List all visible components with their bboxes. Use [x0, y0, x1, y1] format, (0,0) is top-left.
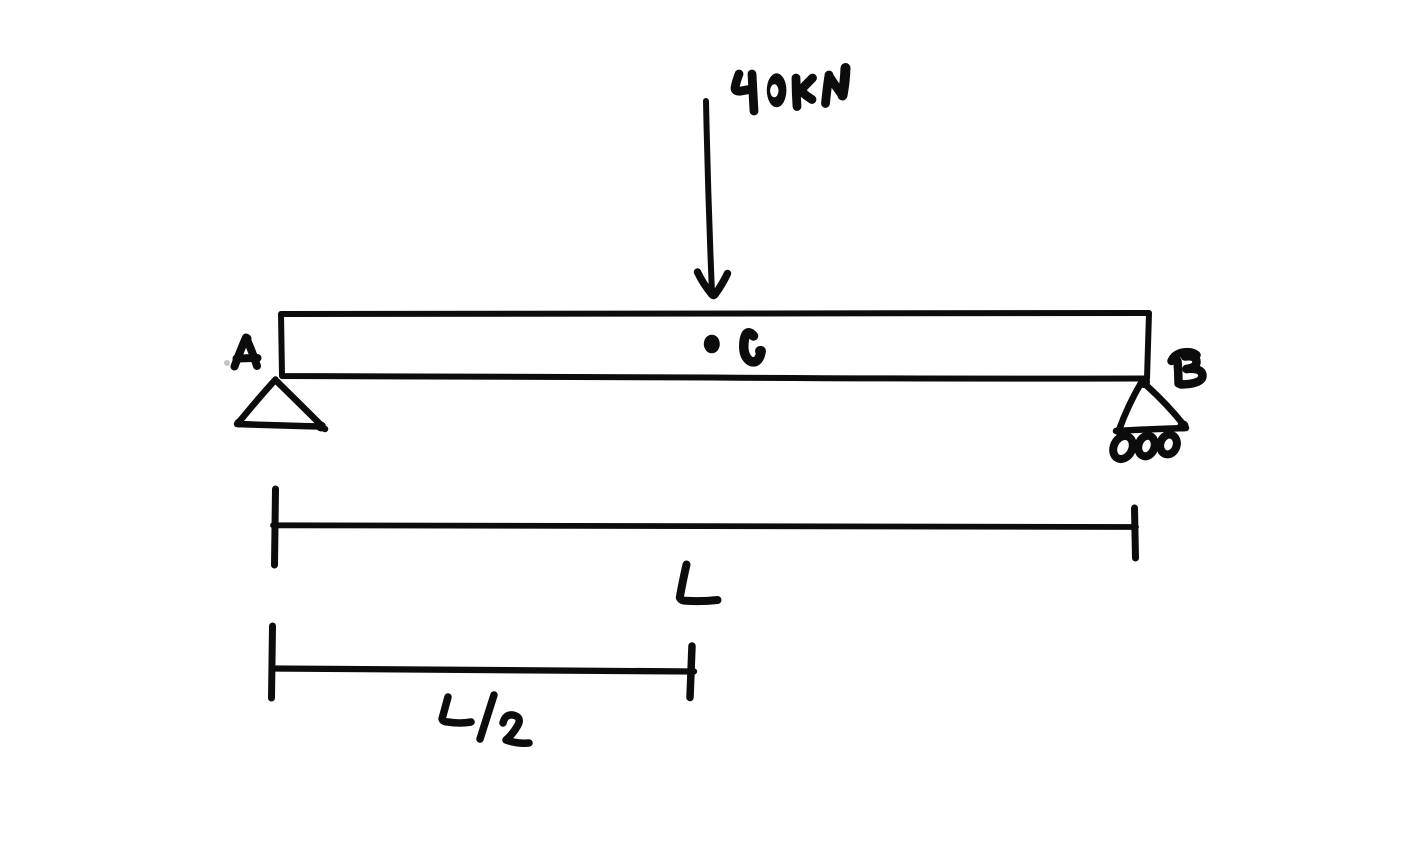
dimension line L: [273, 489, 1136, 565]
load value label 40KN: [735, 68, 846, 111]
beam: [281, 313, 1149, 379]
load arrow: [698, 101, 728, 299]
support B (roller): [1109, 376, 1188, 462]
label C: [744, 333, 765, 362]
label A: [224, 334, 258, 367]
label L/2: [442, 695, 529, 743]
dimension line L/2: [272, 626, 695, 698]
support A (pin): [235, 380, 327, 432]
point C dot: [704, 335, 720, 354]
label B: [1172, 352, 1203, 384]
label L: [680, 565, 718, 602]
